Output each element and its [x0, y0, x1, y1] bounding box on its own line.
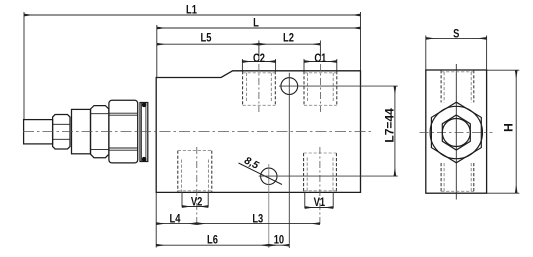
- adjusting screw stem: [24, 120, 53, 144]
- dim L6 line: [156, 244, 269, 246]
- inner socket circle: [442, 119, 470, 147]
- dim C1 bracket: [304, 59, 337, 71]
- svg-text:L1: L1: [186, 4, 197, 17]
- svg-text:C2: C2: [253, 52, 265, 65]
- dim L/L5 left extension: [156, 25, 158, 77]
- port C2 thread (dashed): [243, 71, 276, 105]
- dim S right extension: [486, 36, 488, 71]
- hole 8.5: [261, 168, 277, 184]
- hex chamfer circle: [430, 106, 482, 158]
- end view body rect: [426, 70, 487, 193]
- end view bottom port thread (dashed): [441, 163, 474, 193]
- hex wide facet lines: [109, 113, 138, 150]
- end view top port thread (dashed): [441, 70, 474, 102]
- end view horizontal centerline: [420, 131, 493, 133]
- port C1 thread (dashed): [304, 71, 337, 105]
- top hole horizontal axis / L7 top extension: [279, 85, 398, 87]
- svg-text:S: S: [453, 28, 459, 41]
- dim L2 line: [259, 43, 321, 45]
- svg-text:L3: L3: [252, 213, 263, 226]
- valve body outline: [156, 71, 360, 193]
- seal washer: [140, 103, 148, 162]
- dim L3 line: [197, 223, 320, 225]
- port C2 centerline: [258, 64, 260, 112]
- svg-text:V1: V1: [314, 196, 325, 209]
- locknut facet lines: [53, 124, 70, 139]
- 8.5 hole vertical axis: [268, 164, 270, 248]
- port V1 centerline: [319, 147, 321, 226]
- dim L4/L6 left extension: [155, 192, 157, 247]
- o-ring top: [142, 103, 147, 108]
- svg-text:L6: L6: [207, 234, 218, 247]
- dim L7 line: [394, 86, 396, 176]
- end view vertical centerline: [455, 64, 457, 200]
- inner hex socket: [442, 115, 470, 150]
- hex narrow facet: [91, 106, 109, 158]
- dim H line: [515, 70, 517, 193]
- body hexagon: [431, 102, 481, 163]
- dim V2 bracket: [182, 192, 208, 207]
- svg-text:H: H: [502, 123, 516, 132]
- dim L1 left extension: [23, 12, 25, 119]
- adjuster cylinder: [72, 109, 91, 153]
- dim S line: [426, 37, 487, 39]
- hex narrow facet lines: [91, 114, 109, 150]
- port V1 thread (dashed): [304, 153, 337, 192]
- dim C2 bracket: [242, 59, 275, 71]
- o-ring bottom: [142, 157, 147, 162]
- port V2 centerline: [196, 147, 198, 226]
- svg-text:C1: C1: [314, 52, 326, 65]
- 8.5 leader line: [239, 163, 283, 185]
- top hole vertical axis: [288, 73, 290, 248]
- 8.5 hole horizontal axis / L7 bottom extension: [259, 175, 398, 177]
- dim H bottom extension: [487, 192, 520, 194]
- washer inner lines: [142, 103, 146, 162]
- svg-text:10: 10: [274, 234, 284, 247]
- svg-text:L: L: [253, 17, 259, 30]
- dim L1 line: [24, 14, 361, 16]
- dim L5 line: [157, 43, 259, 45]
- dim L2 mid extension: [258, 41, 260, 61]
- svg-text:L2: L2: [283, 31, 294, 44]
- svg-text:V2: V2: [191, 195, 202, 208]
- dim H top extension: [487, 69, 520, 71]
- main centerline: [23, 131, 371, 133]
- dim L1/L right extension: [360, 12, 362, 71]
- dim L line: [157, 27, 361, 29]
- locknut (small hex): [53, 115, 70, 150]
- svg-text:L4: L4: [170, 212, 181, 225]
- dim L2 right extension: [319, 41, 321, 61]
- dim V1 bracket: [305, 192, 333, 208]
- svg-text:L5: L5: [201, 31, 212, 44]
- dim 10 line: [269, 244, 290, 246]
- dim L4 line: [156, 223, 197, 225]
- port V2 thread (dashed): [178, 151, 212, 193]
- top gauge hole: [281, 78, 298, 95]
- dim S left extension: [425, 36, 427, 71]
- svg-text:L7=44: L7=44: [382, 108, 396, 143]
- cartridge hex wide facet: [109, 100, 138, 163]
- port C1 centerline: [319, 64, 321, 112]
